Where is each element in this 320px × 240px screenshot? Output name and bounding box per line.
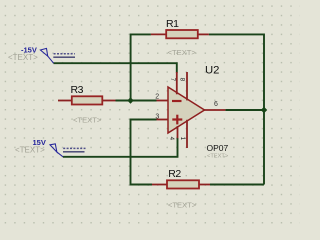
- pin 8 (offset null): [186, 72, 188, 100]
- svg-text:<TEXT>: <TEXT>: [168, 200, 197, 209]
- wire: pin3 branch left and down to R2 left lead: [131, 120, 157, 185]
- svg-text:R2: R2: [168, 168, 181, 180]
- svg-text:3: 3: [155, 113, 159, 120]
- svg-text:6: 6: [214, 101, 218, 108]
- pin 4 (V-): [177, 126, 179, 138]
- power terminal 15V: [50, 144, 86, 157]
- svg-text:R1: R1: [166, 18, 179, 30]
- svg-text:<TEXT>: <TEXT>: [15, 145, 45, 154]
- power terminal -15V: [40, 48, 75, 63]
- plus mark: [172, 118, 182, 120]
- svg-text:2: 2: [155, 94, 159, 101]
- wire: R1 right to top-right corner then down right vertical to R2 row: [209, 34, 264, 184]
- pin 1 (offset null): [186, 120, 188, 148]
- op-amp U2: [157, 72, 226, 148]
- pin 2 (IN-): [157, 100, 169, 102]
- wire: output pin 6 to right vertical: [225, 109, 264, 111]
- svg-text:R3: R3: [71, 84, 84, 96]
- wire: R2 right lead to right vertical corner: [210, 184, 264, 186]
- pin 7 (V+): [176, 72, 178, 94]
- wire: top net, R1 left vertical from junction up to R1 row: [131, 34, 151, 100]
- svg-text:OP07: OP07: [207, 143, 229, 153]
- resistor R2: [152, 180, 210, 188]
- svg-text:<TEXT>: <TEXT>: [207, 154, 229, 160]
- pin 6 (OUT): [204, 109, 225, 111]
- minus mark: [172, 100, 182, 102]
- svg-text:<TEXT>: <TEXT>: [168, 48, 197, 57]
- node: inverting input junction dot: [127, 97, 134, 104]
- svg-text:4: 4: [168, 137, 175, 141]
- svg-text:1: 1: [179, 137, 186, 141]
- pin 3 (IN+): [157, 119, 169, 121]
- wire: -15V terminal to op-amp top pin 7: [54, 63, 177, 73]
- svg-text:7: 7: [169, 78, 176, 82]
- node: output junction dot: [261, 107, 268, 114]
- resistor R1: [151, 30, 209, 38]
- wire: R3 right lead to inverting node to pin 2: [116, 100, 157, 102]
- svg-text:<TEXT>: <TEXT>: [8, 53, 38, 62]
- svg-text:<TEXT>: <TEXT>: [73, 115, 102, 124]
- svg-text:8: 8: [178, 78, 185, 82]
- svg-text:U2: U2: [205, 65, 219, 77]
- resistor R3: [58, 96, 116, 104]
- wire: 15V terminal to op-amp bottom pin 4: [63, 138, 178, 157]
